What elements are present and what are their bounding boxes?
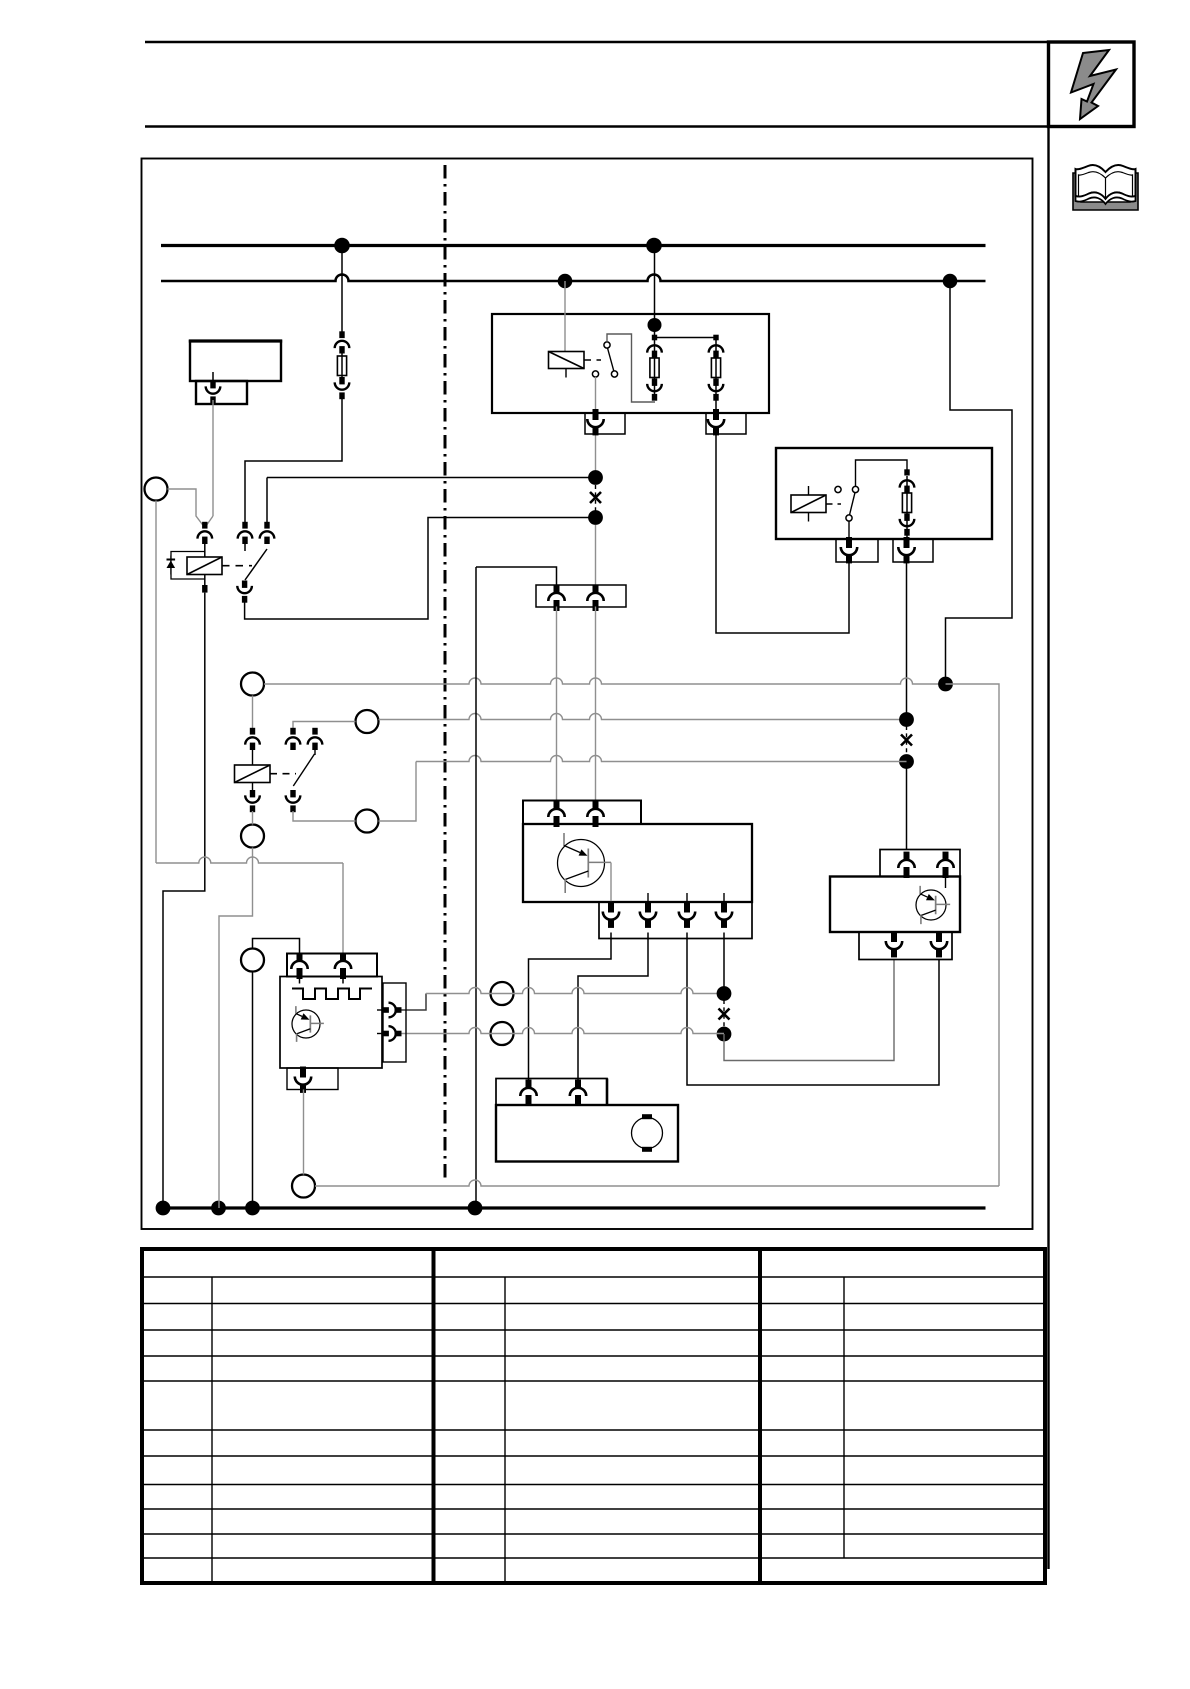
signal line A	[264, 678, 946, 684]
relay K4 coil output connector	[245, 783, 260, 813]
module U1 upper connector pin 1	[548, 801, 564, 827]
schematic border frame	[142, 159, 1033, 1230]
motor M1	[632, 1114, 663, 1152]
terminal eye E7	[491, 982, 514, 1005]
K2 output connector right	[708, 409, 724, 435]
fuse F1	[337, 348, 346, 381]
splice X1 dashed	[595, 485, 597, 511]
open book icon	[1073, 165, 1138, 210]
module U3 lower connector	[295, 1067, 311, 1093]
relay K1 switch pin 2	[260, 522, 275, 544]
terminal eye E9	[292, 1175, 315, 1198]
wire E6 to module U3	[253, 939, 300, 955]
ground dot G4	[468, 1201, 483, 1216]
module U1 upper connector housing	[523, 801, 641, 825]
wire bus30 to K2 fuses	[654, 246, 656, 338]
fuse F2	[650, 340, 659, 397]
fuse F4 lower connector	[900, 514, 915, 536]
module U3 box	[280, 977, 382, 1069]
relay K4 pin connector 2	[286, 728, 301, 750]
wire K3 switch to fuse F4	[856, 460, 908, 487]
relay K4 pin connector 1	[245, 728, 260, 750]
splice dot X2a	[899, 712, 914, 727]
diode D1	[167, 556, 176, 575]
device A connector housing	[196, 381, 247, 404]
signal line B	[379, 714, 907, 720]
splice X2	[901, 735, 912, 746]
ground dot G2	[211, 1201, 226, 1216]
K3 output connector left	[841, 537, 857, 563]
motor M1 box	[496, 1105, 678, 1162]
wire bus15 to K2 coil	[564, 281, 566, 352]
signal line C	[379, 756, 907, 822]
module U2 box	[830, 877, 960, 933]
fuse F3 upper connector	[709, 345, 724, 358]
K3 output connector right	[898, 537, 914, 563]
relay K1 coil lower pin	[202, 575, 207, 593]
wire X2 to module U2	[906, 762, 908, 851]
K2 output connector left	[587, 409, 603, 435]
wire K4 switch to E5	[293, 811, 356, 821]
signal line E	[398, 1028, 725, 1034]
module U1 lower connector 3	[679, 902, 695, 928]
module U1 box	[523, 824, 752, 902]
module U1 lower connector 2	[640, 902, 656, 928]
junction dot bus30/relay box feed	[646, 238, 662, 254]
module U1 lower pin stub 3	[686, 893, 688, 910]
wire X3 to module U2 pin a	[724, 960, 894, 1061]
module U1 base lead drop	[610, 863, 612, 903]
page header top rule	[145, 41, 1134, 44]
relay K1 actuator dashed link	[222, 565, 252, 567]
wire K2 switch to fuse F2 bottom	[607, 334, 655, 402]
relay K2 coil	[549, 352, 585, 378]
fuse F3 lower connector	[709, 379, 724, 401]
bus 15 (lower supply rail)	[161, 275, 986, 282]
wire into K1 coil	[204, 544, 206, 557]
relay K1 coil connector	[198, 522, 213, 544]
connector strip pin 2	[587, 585, 603, 611]
module U3 lower connector housing	[287, 1068, 338, 1090]
motor M1 connector pin 2	[570, 1080, 586, 1106]
wire K3 fuse output to X2	[906, 562, 908, 719]
module U3 upper connector pin 2	[335, 953, 351, 984]
relay K4 actuator dashed link	[270, 773, 296, 775]
wire E6 to ground	[252, 972, 254, 1209]
module U3 upper connector pin 1	[291, 953, 307, 984]
wire bus30 to fuse F1	[341, 246, 343, 338]
junction dot K2 feed	[648, 318, 662, 332]
wire E3 to relay K4 switch pin	[293, 722, 356, 734]
module U2 lower connector housing	[859, 932, 952, 960]
wire relay box K2 output to X1	[595, 434, 597, 478]
junction dot bus15/right feed	[943, 274, 958, 289]
terminal eye E8	[491, 1022, 514, 1045]
warning icon box frame	[1049, 42, 1135, 127]
terminal eye E1	[145, 478, 168, 501]
relay K3 actuator dashed link	[826, 503, 841, 505]
wire K1 output to splice lower dot	[245, 518, 596, 620]
relay K2 switch blade	[608, 348, 614, 371]
legend table	[142, 1249, 1045, 1583]
junction dot bus30/fuse F1	[334, 238, 350, 254]
wire strip pin1 to module U1	[556, 607, 558, 802]
relay K4 switch blade	[293, 754, 314, 786]
module U3 side connector 1	[377, 1003, 402, 1018]
module U1 lower connector housing	[599, 902, 752, 939]
module U2 upper connector pin 2	[937, 852, 953, 888]
high-voltage lightning bolt icon	[1071, 50, 1116, 119]
module U2 lower connector b	[931, 931, 947, 957]
wire U1 to motor pin1	[529, 933, 612, 1081]
relay K2 switch contacts	[592, 342, 617, 377]
K3 output connector housing right	[893, 539, 933, 562]
fuse F3	[711, 340, 720, 413]
motor M1 connector pin 1	[520, 1080, 536, 1106]
terminal eye E3	[356, 710, 379, 733]
wire U1 to motor pin2	[578, 933, 648, 1081]
module U3 upper connector housing	[287, 954, 377, 977]
wire E2 to relay K4 coil pin	[252, 696, 254, 734]
relay K4 switch output connector	[286, 790, 301, 812]
fuse F2 upper connector	[647, 345, 662, 358]
junction dot bus15/relay coil feed	[558, 274, 573, 289]
signal return line	[315, 684, 999, 1186]
wire U1 pin4 to X3	[723, 933, 725, 994]
relay K3 switch contacts	[835, 486, 859, 521]
wire U1 to module U2 pin b	[687, 933, 939, 1086]
splice dot X1a	[588, 470, 603, 485]
relay K1 switch blade	[245, 549, 267, 580]
relay K4 pin connector 3	[308, 728, 323, 755]
junction dot line A	[938, 677, 953, 692]
wire E1 to relay K1 coil pin	[168, 489, 205, 527]
wire K3 switch to output connector	[848, 521, 850, 542]
wire fuse F1 to switch S1	[245, 393, 342, 523]
splice X2 dashed	[906, 726, 908, 755]
fuse F1 upper connector	[335, 331, 350, 353]
K2 fuse feed rail	[652, 335, 719, 341]
relay box K3 frame	[776, 448, 992, 539]
motor M1 connector housing	[496, 1079, 607, 1106]
relay K2 actuator dashed link	[584, 359, 601, 361]
relay K3 switch blade	[850, 493, 856, 516]
module U1 lower pin stub 2	[647, 893, 649, 910]
relay box K2 frame	[492, 314, 769, 413]
relay K1 coil	[187, 557, 222, 575]
module U2 upper connector housing	[880, 850, 960, 877]
wire fuse F3 to relay K3 input	[716, 434, 849, 633]
K3 output connector housing left	[836, 539, 878, 562]
wire E1 ground run	[156, 501, 343, 955]
connector strip pin 1	[548, 585, 564, 611]
terminal eye E2	[241, 673, 264, 696]
wire ground drop x475	[475, 567, 477, 1208]
wire device A to relay K1 pin	[205, 400, 213, 527]
module U1 lower connector 4	[716, 902, 732, 928]
module U1 upper connector pin 2	[587, 801, 603, 827]
terminal eye E5	[356, 810, 379, 833]
splice dot X3a	[717, 986, 732, 1001]
terminal eye E6	[241, 949, 264, 972]
terminal eye E4	[241, 825, 264, 848]
fuse F1 lower connector	[335, 377, 350, 399]
splice X1	[590, 492, 601, 503]
wire K4 coil to E4	[252, 811, 254, 825]
module U2 upper connector pin 1	[898, 852, 914, 878]
transistor Q2	[916, 886, 950, 924]
page header bottom rule	[145, 125, 1134, 128]
relay K1 switch output connector	[237, 581, 252, 603]
module U2 lower connector a	[886, 931, 902, 957]
module U3 side connector housing	[383, 983, 406, 1062]
wire strip pin2 to module U1	[595, 607, 597, 802]
module U3 side connector 2	[377, 1026, 402, 1041]
right margin vertical rule	[1047, 42, 1049, 1569]
fuse F2 lower connector	[647, 379, 662, 401]
K2 output connector housing left	[585, 413, 625, 434]
bus 30 (upper supply rail)	[161, 244, 986, 247]
wire X1 to interior connector	[595, 525, 597, 586]
relay K3 coil	[791, 486, 826, 522]
ground bus (bottom rail)	[157, 1206, 986, 1209]
wire splice to strip corner	[476, 567, 557, 586]
splice dot X3b	[717, 1027, 732, 1042]
pulse generator symbol	[292, 989, 372, 1000]
splice dot X1b	[588, 510, 603, 525]
transistor Q3	[292, 1006, 324, 1042]
relay K1 switch pin 1	[238, 522, 253, 551]
device A connector pin	[206, 372, 221, 403]
ground dot G1	[156, 1201, 171, 1216]
device A box (top left unit)	[189, 341, 282, 381]
connector strip housing	[536, 585, 626, 607]
wire K1 pin2 to splice dot	[267, 478, 596, 528]
transistor Q1	[558, 833, 612, 893]
relay K1 diode branch frame	[171, 552, 205, 580]
wire E4 to ground	[219, 848, 253, 1209]
K2 output connector housing right	[706, 413, 746, 434]
wire bus15 to relay box K3	[946, 288, 1013, 677]
fuse F4 upper connector	[900, 469, 915, 493]
wire K2 switch output	[595, 377, 597, 417]
signal line D	[399, 988, 725, 1010]
splice X3	[719, 1009, 730, 1020]
ground dot G3	[245, 1201, 260, 1216]
module U1 lower pin stub 4	[723, 893, 725, 910]
fuse F4	[902, 476, 911, 539]
wire K1 coil to ground	[163, 593, 205, 1208]
engine/body dividing dash-dot line	[444, 165, 447, 1183]
splice X3 dashed	[723, 1000, 725, 1028]
module U1 lower connector 1	[603, 902, 619, 928]
wire U3 to E9	[303, 1090, 305, 1175]
splice dot X2b	[899, 754, 914, 769]
relay K4 coil	[235, 750, 271, 783]
